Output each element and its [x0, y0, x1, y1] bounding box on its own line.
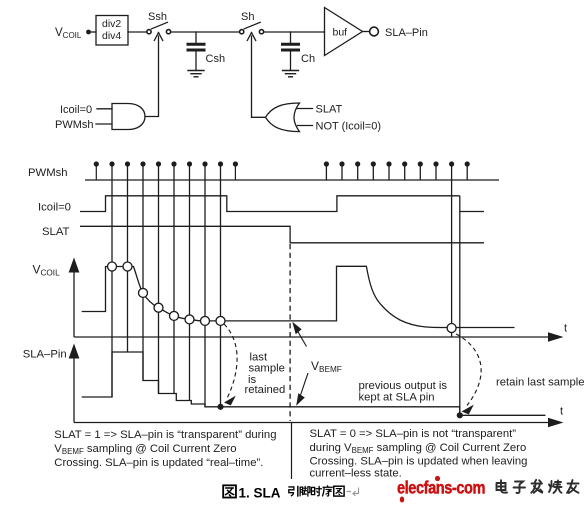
svg-text:SLA–Pin: SLA–Pin [23, 349, 67, 361]
svg-text:NOT (Icoil=0): NOT (Icoil=0) [316, 121, 382, 133]
svg-text:Csh: Csh [206, 53, 226, 65]
svg-text:t: t [564, 323, 567, 335]
svg-text:PWMsh: PWMsh [28, 167, 68, 179]
svg-text:previous output is: previous output is [359, 380, 448, 392]
svg-text:last: last [250, 351, 268, 363]
svg-text:during VBEMF sampling @ Coil C: during VBEMF sampling @ Coil Current Zer… [310, 442, 527, 455]
svg-text:retain last sample: retain last sample [496, 377, 585, 389]
svg-text:buf: buf [333, 27, 348, 39]
svg-text:Icoil=0: Icoil=0 [60, 104, 92, 116]
svg-text:Icoil=0: Icoil=0 [38, 202, 71, 214]
svg-text:Ch: Ch [301, 53, 315, 65]
svg-text:SLAT = 0 => SLA–pin is not “tr: SLAT = 0 => SLA–pin is not “transparent” [310, 428, 517, 440]
svg-text:sample: sample [249, 363, 285, 375]
svg-text:SLAT: SLAT [42, 226, 70, 238]
svg-text:1. SLA: 1. SLA [239, 486, 281, 501]
svg-text:Sh: Sh [241, 11, 254, 23]
svg-text:retained: retained [245, 384, 286, 396]
svg-text:current–less state.: current–less state. [310, 468, 402, 480]
svg-text:kept at SLA pin: kept at SLA pin [359, 392, 435, 404]
svg-text:Crossing. SLA–pin is updated “: Crossing. SLA–pin is updated “real–time”… [54, 457, 263, 469]
svg-text:div2: div2 [102, 18, 121, 30]
svg-text:t: t [560, 406, 563, 418]
svg-text:SLA–Pin: SLA–Pin [385, 27, 428, 39]
svg-text:SLAT = 1 => SLA–pin is “transp: SLAT = 1 => SLA–pin is “transparent” dur… [54, 429, 276, 441]
svg-text:Ssh: Ssh [148, 11, 167, 23]
svg-text:Crossing. SLA–pin is updated w: Crossing. SLA–pin is updated when leavin… [310, 455, 528, 467]
svg-text:PWMsh: PWMsh [55, 119, 94, 131]
svg-text:SLAT: SLAT [316, 104, 343, 116]
svg-text:elecfans-com: elecfans-com [397, 478, 485, 498]
svg-text:div4: div4 [102, 30, 121, 42]
